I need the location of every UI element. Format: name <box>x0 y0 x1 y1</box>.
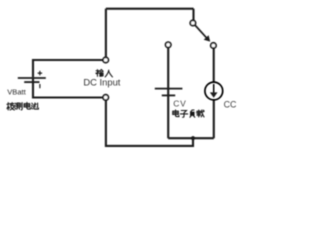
svg-text:VBatt: VBatt <box>7 88 26 97</box>
svg-text:CC: CC <box>224 99 237 109</box>
svg-text:DC Input: DC Input <box>83 77 120 88</box>
svg-text:CV: CV <box>173 99 186 109</box>
